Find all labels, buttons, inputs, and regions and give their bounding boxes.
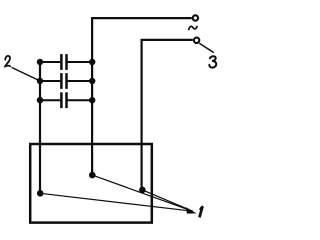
wire: vertical bus A (right capacitor bus down into box) xyxy=(91,17,93,175)
electrolytic bath box xyxy=(30,144,152,223)
junction dot row2 right xyxy=(89,78,95,84)
AC tilde symbol xyxy=(189,26,198,30)
label 2 xyxy=(5,56,10,67)
capacitor row 2 xyxy=(40,73,92,89)
leader line from label 2 xyxy=(12,67,40,80)
wire: vertical wire B from lower terminal line down into box xyxy=(141,39,143,190)
label 1 xyxy=(199,206,202,217)
arrowhead at label 1 xyxy=(186,207,197,214)
capacitor row 3 xyxy=(40,92,92,108)
junction dot row1 left xyxy=(37,59,43,65)
terminal O (upper), net ~ xyxy=(193,15,198,20)
leader line from right electrode to label 1 xyxy=(142,190,192,211)
electrode dot left xyxy=(37,190,44,197)
leader line from middle electrode to label 1 xyxy=(92,175,192,211)
electrode dot right xyxy=(139,187,146,194)
wire: second horizontal to lower terminal xyxy=(142,39,193,41)
junction dot row1 right xyxy=(89,59,95,65)
wire: top horizontal to upper terminal xyxy=(91,17,191,19)
electrode dot middle xyxy=(89,172,96,179)
leader line to label 3 xyxy=(199,43,214,52)
capacitor row 1 xyxy=(40,54,92,70)
wire: left capacitor bus down into box xyxy=(39,62,41,194)
junction dot row2 left xyxy=(37,78,43,84)
label 3 xyxy=(209,56,216,67)
junction dot row3 right xyxy=(89,97,95,103)
leader line from left electrode to label 1 xyxy=(40,193,192,211)
junction dot row3 left xyxy=(37,97,43,103)
terminal O (lower) xyxy=(194,38,199,43)
